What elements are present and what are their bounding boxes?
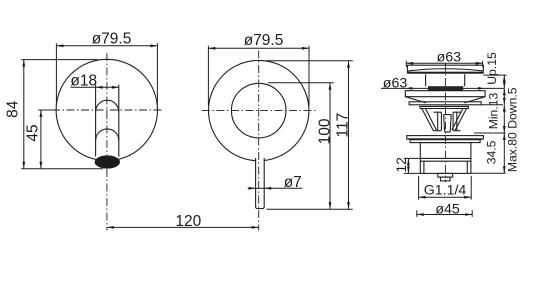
svg-text:Max.80 Down.5: Max.80 Down.5 bbox=[505, 87, 519, 172]
svg-text:120: 120 bbox=[175, 213, 201, 230]
right dimension column: extension lines bbox=[471, 75, 507, 173]
dimension d7: leader line bbox=[248, 187, 303, 189]
svg-text:117: 117 bbox=[334, 113, 351, 138]
svg-text:ø63: ø63 bbox=[437, 49, 462, 65]
dimension d63 lower: dimension line across bbox=[381, 87, 505, 89]
dimension d79.5 left view: line and extensions bbox=[56, 43, 157, 105]
arrows 12 bbox=[407, 158, 410, 165]
drain: basket top bar bbox=[420, 106, 469, 108]
drain: cap outline bbox=[407, 65, 483, 73]
dimension texts bbox=[4, 30, 519, 230]
drain: plug pin step 2 bbox=[441, 177, 451, 181]
drain: plug pin step 1 bbox=[438, 173, 453, 177]
svg-text:ø45: ø45 bbox=[435, 201, 460, 217]
arrows G1.1/4 bbox=[419, 196, 426, 199]
svg-text:ø18: ø18 bbox=[70, 72, 97, 89]
svg-text:34.5: 34.5 bbox=[484, 140, 498, 164]
arrows right column bottom bbox=[503, 166, 506, 173]
dimension 117: leader, line, bottom extension bbox=[266, 61, 353, 210]
left view: vertical centerline bbox=[106, 53, 108, 231]
drain: mounting flange bbox=[405, 91, 485, 97]
dimension d79.5 middle view: line and extensions bbox=[208, 46, 309, 106]
left view: handle tip ellipse bbox=[95, 155, 120, 168]
dimension 84: line and extensions bbox=[21, 60, 103, 169]
drain: claw slots bbox=[438, 112, 457, 130]
drain: claw top ticks bbox=[434, 111, 461, 113]
drain: basket outer walls bbox=[422, 109, 467, 131]
dimension d45: extensions and line bbox=[417, 210, 472, 217]
arrows 120 bbox=[107, 226, 114, 229]
dimension 12: extensions and line bbox=[404, 158, 421, 173]
svg-text:12: 12 bbox=[393, 157, 409, 173]
arrows d79.5 left bbox=[56, 44, 63, 47]
drain: cap dark underside band bbox=[408, 72, 484, 74]
dimension 100: leader and line bbox=[268, 83, 334, 210]
arrows 45 bbox=[40, 110, 43, 117]
left view: handle cylinder body bbox=[96, 85, 119, 157]
middle view: horizontal centerline bbox=[202, 110, 316, 112]
arrows d63 top bbox=[406, 62, 413, 65]
drain: body groove lines bbox=[420, 158, 471, 161]
svg-text:45: 45 bbox=[24, 124, 41, 141]
arrowheads bbox=[22, 44, 505, 228]
left view: handle top arc bbox=[96, 100, 119, 112]
svg-text:100: 100 bbox=[317, 118, 334, 144]
left view: handle lower joint arc bbox=[96, 129, 119, 141]
arrows d63 lower bbox=[405, 87, 412, 90]
drain: basket bottom closures bbox=[433, 130, 460, 132]
drain: neck cylinder bbox=[426, 74, 465, 86]
arrows d7 outside pair bbox=[249, 187, 256, 190]
svg-text:G1.1/4: G1.1/4 bbox=[424, 182, 467, 198]
middle view: lever stem bbox=[256, 158, 265, 209]
svg-text:ø63: ø63 bbox=[383, 75, 408, 91]
arrows right column at flange level bbox=[503, 81, 506, 88]
dimension G1.1/4: extensions and line bbox=[419, 176, 472, 200]
drain: lock plate lower lip bbox=[410, 140, 480, 143]
drain: vertical centerline bbox=[444, 64, 446, 183]
arrows d18 bbox=[96, 86, 103, 89]
arrows right column at lock plate level bbox=[503, 126, 506, 133]
dimension 45: line and extension bbox=[38, 110, 53, 169]
svg-text:Min.13: Min.13 bbox=[487, 92, 501, 129]
arrows right column Up.15 top bbox=[503, 75, 506, 82]
drain: lock plate bbox=[407, 136, 484, 140]
middle view: inner circle bbox=[231, 83, 286, 138]
middle view: escutcheon outer circle bbox=[209, 60, 309, 160]
svg-text:ø79.5: ø79.5 bbox=[92, 30, 132, 47]
drain: lock plate dark lower edge bbox=[408, 138, 482, 139]
svg-text:ø79.5: ø79.5 bbox=[244, 32, 284, 49]
right dimension column: vertical line bbox=[503, 75, 505, 173]
arrows d79.5 middle bbox=[208, 47, 215, 50]
drain: flange underside slants bbox=[405, 97, 485, 103]
middle view: vertical centerline bbox=[258, 51, 260, 231]
left view: horizontal centerline bbox=[52, 109, 163, 111]
dimension d18: line bbox=[71, 86, 119, 88]
arrows right column at washer level bbox=[503, 98, 506, 105]
arrows 117 bbox=[347, 61, 350, 68]
arrows d45 bbox=[417, 213, 424, 216]
dimension d63 top: line and extensions bbox=[406, 61, 483, 67]
drain: thread relief verticals bbox=[424, 161, 467, 173]
drain: seal dark band bbox=[428, 86, 463, 91]
drain: basket inner walls bbox=[425, 109, 463, 131]
drain: center rod bbox=[444, 115, 452, 132]
dimension 120: line bbox=[107, 226, 259, 228]
svg-text:84: 84 bbox=[4, 100, 21, 118]
left view: trim plate circle bbox=[56, 59, 157, 160]
arrows 100 bbox=[329, 83, 332, 90]
svg-text:ø7: ø7 bbox=[284, 174, 302, 191]
drain: threaded body bbox=[420, 143, 471, 174]
drain: washer plate bbox=[409, 102, 481, 105]
svg-text:Up.15: Up.15 bbox=[485, 52, 499, 85]
arrows 84 bbox=[22, 60, 25, 67]
